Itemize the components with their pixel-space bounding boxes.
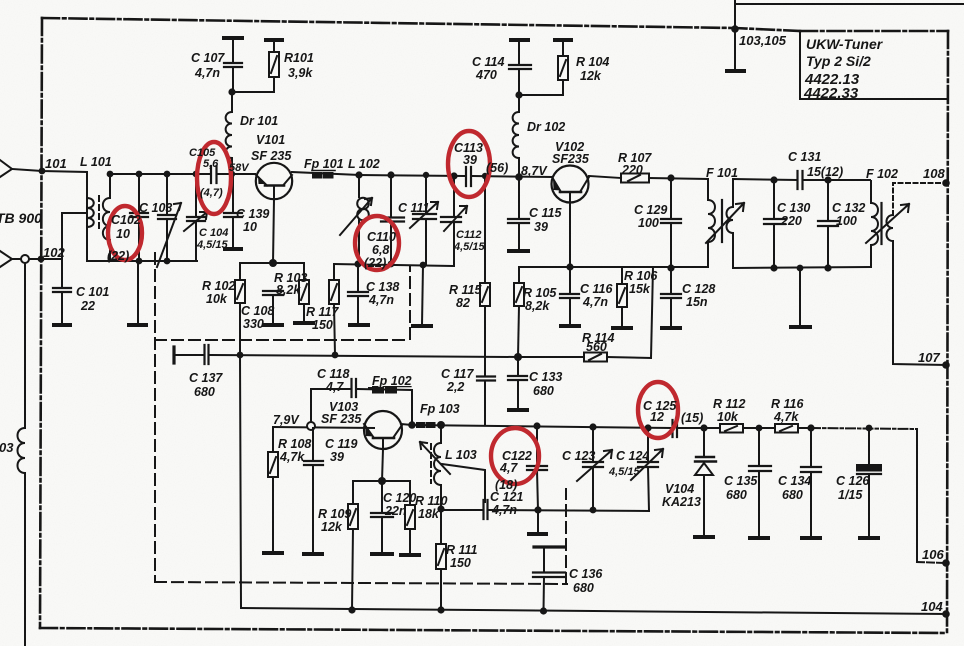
resistor R104: [555, 38, 571, 42]
red circle C102: [108, 206, 142, 260]
capacitor C136: [534, 545, 564, 548]
transistor V101: [256, 163, 292, 199]
capacitor C122: [536, 426, 538, 466]
resistor R103: [303, 263, 305, 280]
trimmer C111: [425, 175, 427, 265]
capacitor C139: [232, 174, 234, 213]
resistor R112: [720, 424, 743, 433]
capacitor C110: [390, 175, 392, 263]
wire: V103 emitter: [382, 449, 383, 481]
ground stem filter: [799, 268, 801, 326]
resistor R108: [272, 427, 274, 452]
capacitor C119: [312, 428, 314, 461]
transistor V103: [364, 411, 402, 449]
resistor R102: [239, 263, 241, 280]
ferrite bead Fp102: [373, 388, 383, 393]
resistor R101: [273, 41, 275, 52]
capacitor C102: [138, 174, 140, 261]
L101 secondary: [109, 174, 111, 198]
F101 secondary: [732, 179, 734, 207]
resistor R110: [409, 481, 411, 505]
capacitor C128: [670, 268, 672, 294]
trimmer C104: [195, 174, 197, 261]
red circle C110: [355, 216, 399, 270]
node: antenna feed circle: [21, 255, 29, 263]
F101 tuning arrow: [706, 203, 744, 243]
diode V104 KA213: [703, 428, 705, 457]
inner dashed oscillator box: [155, 253, 567, 584]
wire: AFC line (dash-dot): [811, 428, 917, 429]
resistor R106: [621, 267, 623, 284]
wire: V102 emitter bus: [519, 266, 708, 268]
wire 102: [12, 258, 21, 260]
capacitor C137 (series): [205, 345, 209, 364]
red circle C125: [638, 382, 678, 438]
capacitor C105 (series): [211, 166, 217, 183]
resistor R115: [484, 176, 486, 283]
capacitor C129: [670, 178, 672, 219]
capacitor C130: [773, 180, 775, 219]
wire: resonant cold bus: [334, 264, 452, 266]
resistor R111: [440, 509, 442, 544]
top-right solid supply line: [734, 0, 736, 29]
transistor V102: [552, 166, 589, 203]
capacitor C113 (series): [466, 167, 471, 186]
ferrite bead Fp101: [312, 170, 335, 172]
bandfilter F102 primary: [870, 181, 872, 203]
feedthrough capacitor C126: [868, 428, 870, 465]
antenna arrow 101: [0, 160, 12, 177]
wire: collector line V101: [292, 172, 359, 175]
wire: V101 emitter line: [240, 262, 304, 264]
wire 101 to L101: [12, 169, 87, 213]
node dots cold buses: [136, 258, 143, 265]
capacitor C108: [263, 291, 283, 295]
wire: F102 to pin 108 (dashed): [893, 183, 946, 215]
wire: F102 to pin 107: [893, 241, 946, 365]
label underline Fp102: [369, 387, 372, 389]
transformer L101 primary: [86, 213, 88, 261]
resistor R114: [584, 353, 607, 362]
node: 7,9V measuring circle: [307, 422, 315, 430]
wire: bottom bus to pin 104: [241, 608, 946, 614]
capacitor C101: [61, 259, 63, 287]
wire: main RF line L101 to V101: [110, 173, 211, 175]
wire: R114 riser to emitter bus: [651, 267, 653, 358]
capacitor C135: [758, 428, 760, 466]
red circle C105: [197, 142, 231, 214]
F102 tuning arrow: [866, 204, 909, 243]
red inspection ellipses: [108, 131, 678, 484]
capacitor C115: [518, 177, 520, 219]
ground stub C122: [537, 510, 539, 533]
resistor R117: [333, 264, 335, 280]
wire: main line to mixer: [359, 175, 464, 176]
capacitor C114: [511, 38, 528, 42]
wire: input cold bus: [87, 260, 197, 262]
node 103,105 ground stem: [734, 29, 736, 70]
oscillator: 7,9V base line: [273, 427, 374, 428]
antenna arrow 102: [0, 251, 12, 267]
capacitor C116: [569, 267, 571, 294]
capacitor C125 (series): [673, 420, 678, 437]
capacitor C107: [232, 38, 234, 63]
capacitor C133: [517, 357, 519, 376]
ferrite bead Fp103: [417, 423, 425, 427]
title box (solid left/bottom): [800, 31, 948, 99]
capacitor C121 (series): [484, 500, 488, 519]
wire: oscillator tank bottom line: [441, 509, 483, 511]
capacitor C138: [357, 264, 359, 292]
capacitor C132: [827, 180, 829, 221]
wire: V103 collector: [401, 424, 412, 425]
resistor R107: [589, 176, 621, 178]
trimmer C103: [166, 174, 168, 261]
trimmer C123: [592, 427, 594, 510]
pin dots: [731, 25, 739, 33]
wire: C137 AGC line: [172, 347, 175, 363]
capacitor C117: [477, 377, 495, 381]
bandfilter F101 primary: [707, 179, 709, 200]
capacitor C118 (series): [352, 379, 357, 397]
coil L102: [358, 175, 360, 197]
capacitor C134: [810, 428, 812, 467]
resistor R116: [775, 424, 798, 433]
L101 core: [98, 196, 100, 232]
node dots bottom bus: [348, 606, 355, 613]
node dots on main RF line: [39, 168, 46, 175]
capacitor C120: [381, 481, 383, 513]
wire: filter bottom bus: [733, 267, 870, 268]
wire: L103 tap: [442, 464, 485, 502]
node dots oscillator: [408, 421, 416, 429]
choke Dr101: [231, 92, 233, 112]
F101 core: [721, 200, 723, 242]
wire: R102 riser to bottom bus: [240, 355, 241, 608]
coil L103: [440, 425, 442, 443]
trimmer C124: [648, 428, 649, 511]
ground stem input bus: [137, 261, 139, 324]
antenna coil 903: [24, 263, 26, 428]
wire: oscillator line to mixer injection: [412, 425, 672, 428]
F102 core: [880, 203, 882, 244]
F102 secondary: [886, 215, 893, 241]
resistor R105: [518, 267, 520, 283]
resistor R109: [352, 481, 354, 504]
ground stem mixer bus: [422, 265, 423, 325]
choke Dr102: [518, 95, 520, 112]
wire: feedback via C118: [311, 389, 350, 422]
trimmer C112: [453, 176, 455, 266]
wire: filter top line: [733, 179, 797, 180]
red circle C122: [491, 428, 539, 484]
node dots AGC line: [237, 352, 244, 359]
red circle C113: [448, 131, 490, 197]
capacitor C131 (series): [798, 171, 803, 189]
